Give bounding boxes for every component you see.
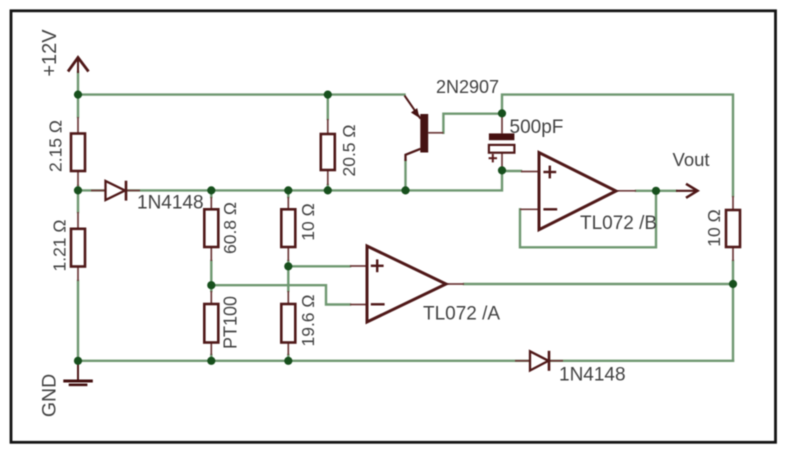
svg-text:1N4148: 1N4148 bbox=[559, 365, 626, 386]
svg-text:PT100: PT100 bbox=[221, 296, 241, 349]
svg-text:10 Ω: 10 Ω bbox=[704, 209, 724, 246]
svg-text:60.8 Ω: 60.8 Ω bbox=[220, 202, 240, 254]
svg-text:19.6 Ω: 19.6 Ω bbox=[298, 294, 318, 346]
svg-text:1.21 Ω: 1.21 Ω bbox=[50, 219, 70, 271]
svg-text:2.15 Ω: 2.15 Ω bbox=[46, 120, 66, 172]
svg-text:TL072 /B: TL072 /B bbox=[580, 213, 657, 234]
svg-text:+12V: +12V bbox=[39, 29, 61, 77]
svg-text:Vout: Vout bbox=[673, 149, 710, 170]
svg-text:TL072 /A: TL072 /A bbox=[423, 304, 500, 325]
svg-text:2N2907: 2N2907 bbox=[436, 77, 499, 97]
svg-text:20.5 Ω: 20.5 Ω bbox=[339, 124, 359, 176]
svg-text:500pF: 500pF bbox=[510, 117, 564, 138]
svg-text:GND: GND bbox=[39, 374, 61, 417]
svg-text:1N4148: 1N4148 bbox=[137, 193, 204, 214]
svg-text:10 Ω: 10 Ω bbox=[298, 203, 318, 240]
